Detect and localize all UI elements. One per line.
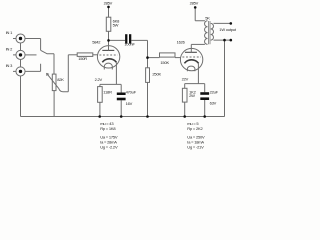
svg-text:22uF: 22uF [210,89,219,94]
svg-text:Ug = -2.2V: Ug = -2.2V [100,145,118,150]
svg-text:285V: 285V [104,1,113,6]
svg-text:5842: 5842 [92,40,101,45]
svg-text:2.2V: 2.2V [95,77,103,82]
svg-text:82K: 82K [57,77,64,82]
svg-text:100nF: 100nF [124,42,135,47]
svg-text:IN 3: IN 3 [6,63,14,68]
svg-text:118R: 118R [103,89,112,94]
svg-text:22V: 22V [182,77,189,82]
svg-text:5K: 5K [205,16,210,21]
svg-text:16V: 16V [126,101,133,106]
svg-text:Rp = 1K8: Rp = 1K8 [100,126,116,131]
svg-text:1W output: 1W output [219,27,237,32]
svg-text:63V: 63V [210,100,217,105]
svg-text:IN 2: IN 2 [6,47,14,52]
svg-text:285V: 285V [190,1,199,6]
svg-text:5W: 5W [113,22,119,27]
svg-text:1626: 1626 [177,40,186,45]
svg-text:Rp = 2K2: Rp = 2K2 [187,126,203,131]
svg-text:Ug = -21V: Ug = -21V [187,145,204,150]
svg-text:150R: 150R [78,56,87,61]
svg-text:2W: 2W [189,93,195,98]
svg-text:250K: 250K [152,72,161,77]
svg-text:IN 1: IN 1 [6,30,14,35]
svg-text:150K: 150K [160,60,169,65]
svg-text:470uF: 470uF [126,89,137,94]
